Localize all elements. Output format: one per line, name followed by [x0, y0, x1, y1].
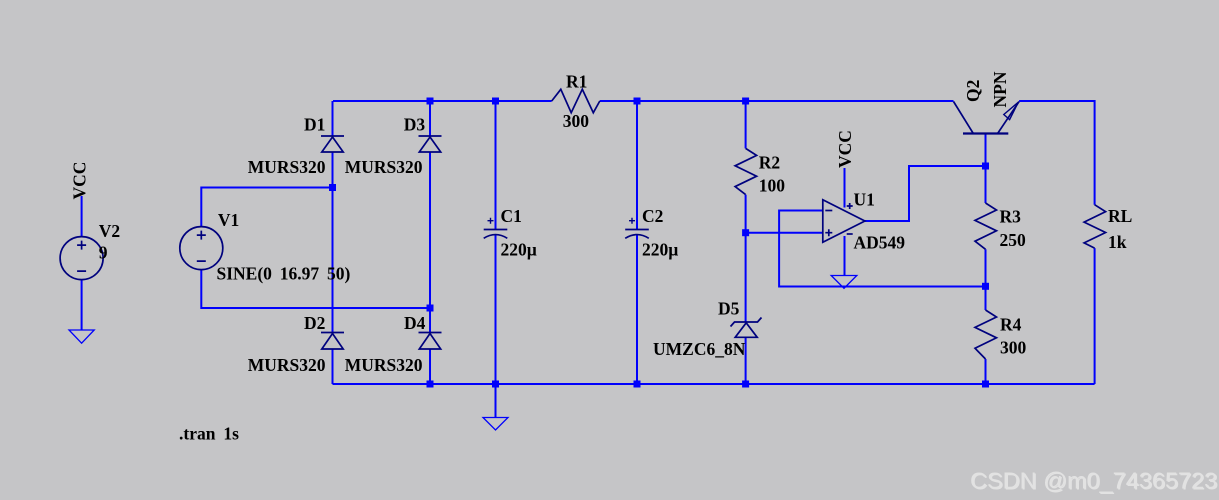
diode D3 [419, 136, 442, 152]
resistor R2 [735, 148, 757, 194]
junction node R2-D5 [742, 229, 749, 236]
svg-text:R1: R1 [566, 72, 587, 92]
svg-text:RL: RL [1108, 206, 1132, 226]
svg-text:300: 300 [1000, 338, 1027, 358]
svg-text:NPN: NPN [990, 71, 1010, 107]
junction node C2 bottom [634, 381, 641, 388]
svg-text:SINE(0 16.97 50): SINE(0 16.97 50) [217, 264, 351, 284]
svg-text:D5: D5 [718, 299, 740, 319]
junction node C1 bottom [492, 381, 499, 388]
svg-text:D3: D3 [404, 115, 426, 135]
junction node Q2 base [982, 163, 989, 170]
svg-text:VCC: VCC [70, 162, 90, 200]
ground under opamp [831, 276, 857, 289]
junction node R4 bottom [982, 381, 989, 388]
wire opamp noninverting input [746, 232, 823, 234]
junction node R3-R4 [982, 283, 989, 290]
transistor Q2 [954, 102, 1020, 134]
diode D1 [321, 136, 344, 152]
svg-text:MURS320: MURS320 [345, 355, 423, 375]
svg-text:R2: R2 [759, 153, 780, 173]
resistor R3 [975, 203, 997, 249]
voltage source V1 [180, 227, 223, 270]
junction node C2 top [634, 98, 641, 105]
svg-text:R3: R3 [1000, 207, 1022, 227]
junction node R2 top [742, 98, 749, 105]
diode D2 [321, 333, 344, 350]
svg-text:UMZC6_8N: UMZC6_8N [653, 339, 746, 359]
junction node D4 bottom [427, 381, 434, 388]
wire V2 bottom [81, 280, 83, 330]
wire opamp V- pin [844, 236, 846, 276]
svg-text:D2: D2 [304, 313, 325, 333]
resistor R1 [552, 89, 600, 112]
svg-text:D1: D1 [304, 115, 325, 135]
svg-text:AD549: AD549 [854, 233, 906, 253]
svg-text:9: 9 [99, 243, 108, 263]
wire D1-D2 column [332, 101, 334, 384]
wire opamp output to base node [865, 166, 986, 221]
svg-text:U1: U1 [854, 190, 875, 210]
svg-text:220µ: 220µ [501, 240, 537, 260]
wire Q2 base to R3 node [985, 134, 987, 385]
diode D4 [419, 333, 442, 350]
junction node V1 minus [427, 305, 434, 312]
wire R2-D5 column [745, 101, 747, 384]
svg-text:CSDN @m0_74365723: CSDN @m0_74365723 [970, 468, 1217, 494]
svg-text:.tran 1s: .tran 1s [179, 424, 239, 444]
svg-text:MURS320: MURS320 [248, 157, 326, 177]
ground under V2 [69, 330, 94, 343]
wire Q2 emitter to RL [1019, 101, 1095, 384]
wire V1 top to bridge [201, 188, 332, 227]
svg-text:220µ: 220µ [642, 240, 678, 260]
wire opamp inverting input feedback [779, 211, 985, 287]
wire D3-D4 column [429, 101, 431, 384]
svg-text:VCC: VCC [835, 130, 855, 168]
junction node V1 plus [329, 184, 336, 191]
resistor RL [1084, 205, 1106, 248]
svg-text:100: 100 [759, 176, 786, 196]
svg-text:300: 300 [563, 111, 590, 131]
wire C2 column [636, 101, 638, 384]
junction node C1 top [492, 98, 499, 105]
capacitor C2 [625, 218, 649, 239]
wire bottom rail [333, 383, 1095, 385]
junction node D5 bottom [742, 381, 749, 388]
svg-text:V1: V1 [218, 210, 239, 230]
svg-text:V2: V2 [99, 221, 120, 241]
junction node D3 top [427, 98, 434, 105]
svg-text:MURS320: MURS320 [345, 157, 423, 177]
svg-text:1k: 1k [1108, 232, 1127, 252]
resistor R4 [975, 310, 997, 359]
watermark CSDN [970, 468, 1218, 495]
zener diode D5 [731, 318, 762, 338]
svg-text:MURS320: MURS320 [248, 355, 326, 375]
svg-text:C1: C1 [501, 206, 522, 226]
svg-text:C2: C2 [642, 206, 663, 226]
svg-text:R4: R4 [1000, 315, 1022, 335]
wire top rail [333, 100, 954, 102]
op-amp U1 [823, 200, 865, 243]
svg-text:250: 250 [1000, 230, 1027, 250]
voltage source V2 [60, 237, 103, 280]
svg-text:Q2: Q2 [963, 80, 983, 102]
wire C1 column [495, 101, 497, 384]
wire V1 bottom to bridge [201, 270, 430, 308]
ground under C1 [495, 384, 497, 418]
capacitor C1 [484, 218, 508, 239]
wire opamp V+ pin [844, 168, 846, 208]
svg-text:D4: D4 [404, 313, 426, 333]
wire V2 top [81, 196, 83, 237]
